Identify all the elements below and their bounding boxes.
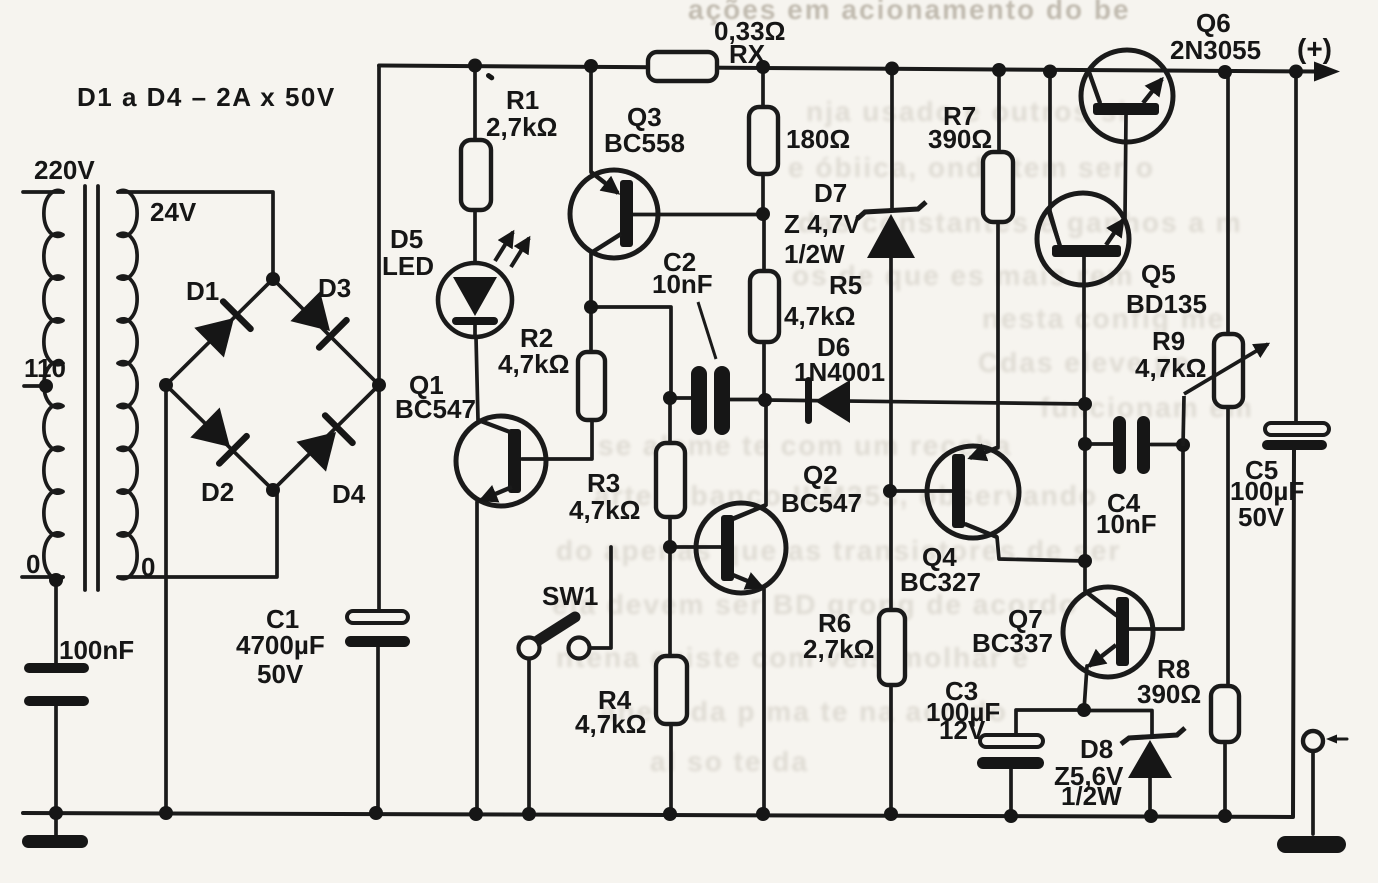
svg-text:RX: RX [729,39,766,69]
svg-text:50V: 50V [257,659,304,689]
svg-text:2,7kΩ: 2,7kΩ [486,112,557,142]
svg-text:10nF: 10nF [652,269,713,299]
svg-text:Q2: Q2 [803,460,838,490]
svg-text:1/2W: 1/2W [1061,781,1122,811]
svg-text:12V: 12V [939,715,986,745]
svg-text:R5: R5 [829,270,862,300]
svg-text:4,7kΩ: 4,7kΩ [569,495,640,525]
svg-text:1/2W: 1/2W [784,239,845,269]
svg-text:390Ω: 390Ω [1137,679,1201,709]
svg-text:24V: 24V [150,197,197,227]
svg-text:110: 110 [24,353,66,383]
svg-text:BC327: BC327 [900,567,981,597]
svg-text:D7: D7 [814,178,847,208]
svg-text:1N4001: 1N4001 [794,357,885,387]
svg-text:D8: D8 [1080,734,1113,764]
svg-text:D3: D3 [318,273,351,303]
svg-text:BC547: BC547 [395,394,476,424]
svg-text:D5: D5 [390,224,423,254]
svg-text:BC558: BC558 [604,128,685,158]
svg-text:BD135: BD135 [1126,289,1207,319]
svg-text:4,7kΩ: 4,7kΩ [1135,353,1206,383]
svg-text:D1: D1 [186,276,219,306]
svg-text:100nF: 100nF [59,635,134,665]
svg-text:0: 0 [141,552,155,582]
svg-text:D1 a D4 – 2A x 50V: D1 a D4 – 2A x 50V [77,82,336,112]
svg-text:10nF: 10nF [1096,509,1157,539]
svg-text:50V: 50V [1238,502,1285,532]
svg-text:D4: D4 [332,479,366,509]
svg-text:R3: R3 [587,468,620,498]
svg-text:2,7kΩ: 2,7kΩ [803,634,874,664]
svg-text:BC547: BC547 [781,488,862,518]
svg-text:Q6: Q6 [1196,8,1231,38]
svg-text:(+): (+) [1297,33,1332,64]
svg-text:180Ω: 180Ω [786,124,850,154]
svg-text:R9: R9 [1152,326,1185,356]
svg-text:LED: LED [382,251,434,281]
svg-text:2N3055: 2N3055 [1170,35,1261,65]
svg-text:4,7kΩ: 4,7kΩ [575,709,646,739]
svg-text:220V: 220V [34,155,95,185]
svg-text:4,7kΩ: 4,7kΩ [498,349,569,379]
svg-text:BC337: BC337 [972,628,1053,658]
svg-text:R1: R1 [506,85,539,115]
svg-text:390Ω: 390Ω [928,124,992,154]
svg-text:4700µF: 4700µF [236,630,325,660]
svg-text:D2: D2 [201,477,234,507]
svg-text:SW1: SW1 [542,581,598,611]
svg-text:0: 0 [26,549,40,579]
svg-text:Z 4,7V: Z 4,7V [784,209,861,239]
svg-text:Q5: Q5 [1141,259,1176,289]
svg-text:4,7kΩ: 4,7kΩ [784,301,855,331]
